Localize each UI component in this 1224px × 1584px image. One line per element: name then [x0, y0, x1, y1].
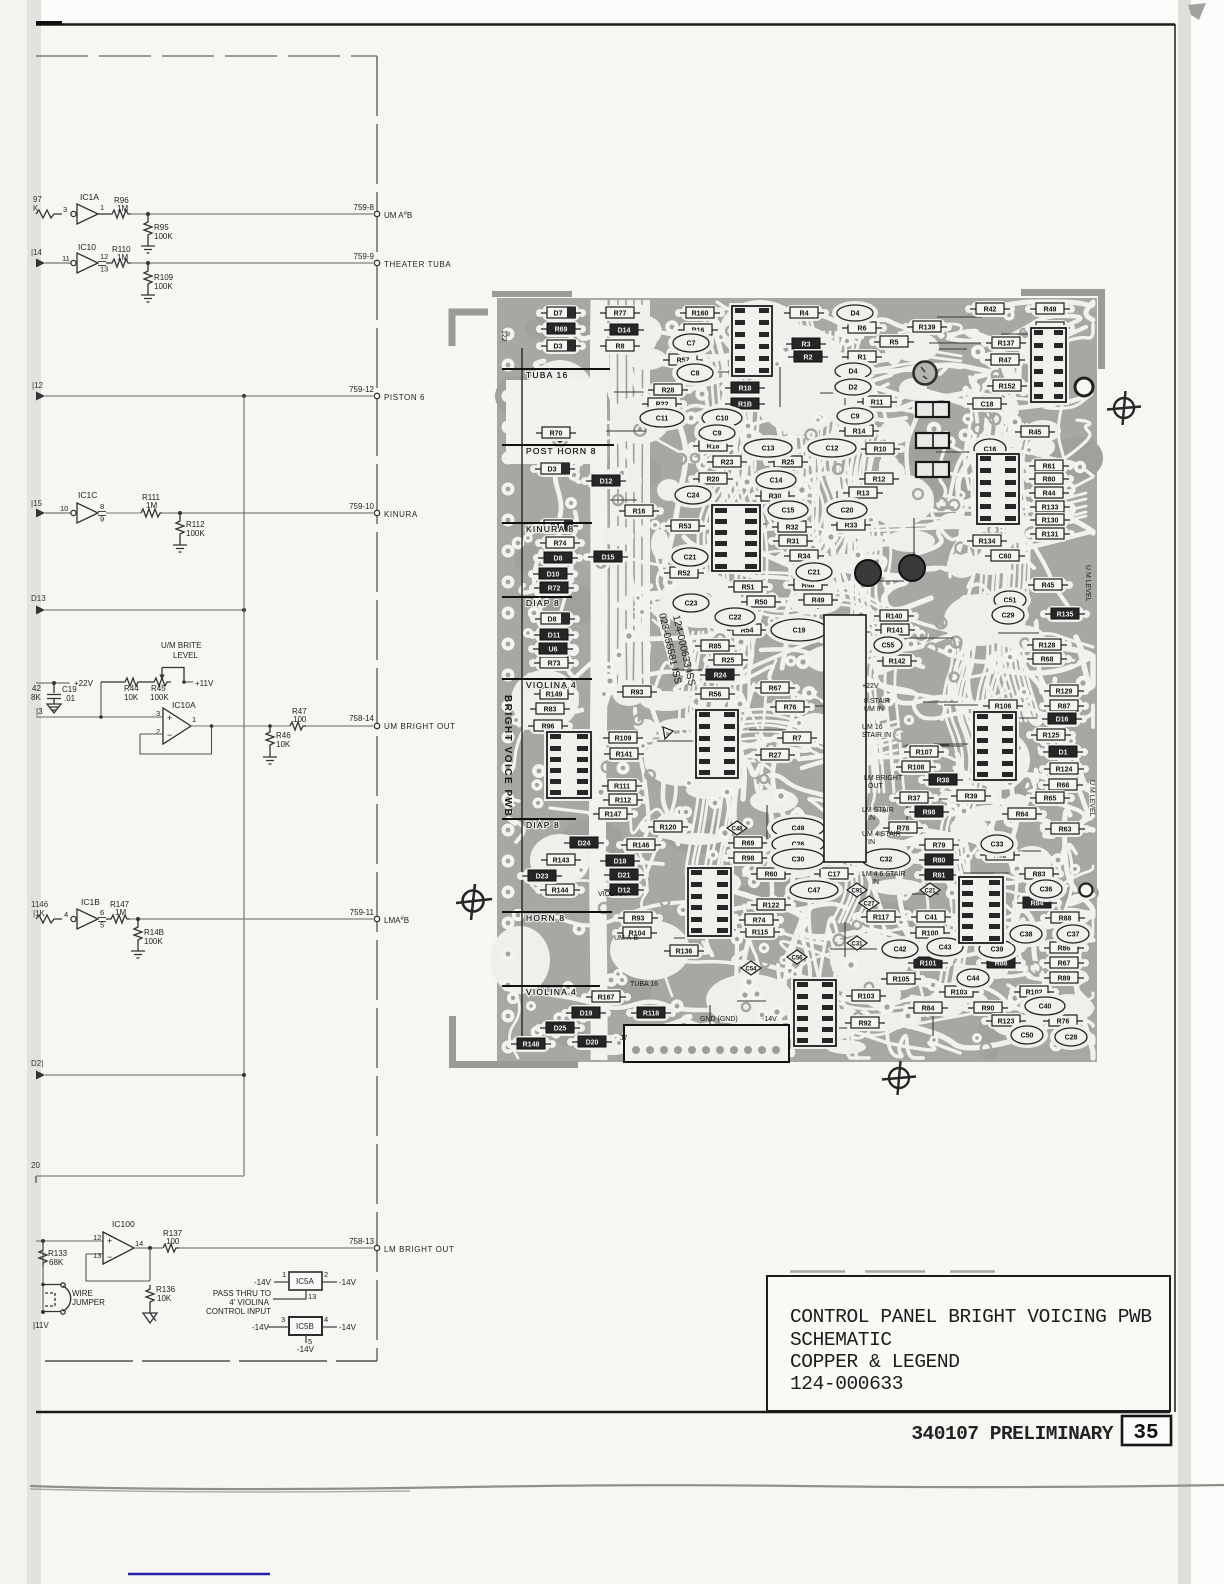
svg-text:R67: R67: [769, 686, 782, 693]
svg-text:R8: R8: [616, 344, 625, 351]
svg-text:124-000633: 124-000633: [790, 1373, 903, 1395]
dashed PWB top border: [36, 55, 377, 57]
svg-text:C54: C54: [745, 966, 757, 972]
svg-text:TUBA 16: TUBA 16: [526, 370, 568, 380]
svg-text:C28: C28: [1065, 1035, 1078, 1042]
svg-text:R61: R61: [1043, 464, 1056, 471]
svg-text:R13: R13: [857, 491, 870, 498]
svg-text:100: 100: [166, 1237, 180, 1246]
svg-text:R11: R11: [871, 400, 884, 407]
svg-text:14: 14: [135, 1239, 143, 1248]
svg-text:GND (GND): GND (GND): [700, 1016, 738, 1023]
wire +22V stub: [36, 682, 70, 684]
crop bracket bottom-left: [453, 1016, 579, 1065]
node junction: [242, 608, 246, 612]
node 20 row: [31, 1161, 244, 1183]
svg-text:C11: C11: [656, 416, 669, 423]
resistor R148 100K: [134, 919, 164, 946]
svg-text:C12: C12: [826, 446, 839, 453]
svg-text:C39: C39: [991, 947, 1004, 954]
node 12 input arrow: [32, 381, 45, 401]
svg-text:R33: R33: [845, 523, 858, 530]
node 15 input arrow: [31, 499, 45, 518]
blue pen mark: [128, 1573, 270, 1576]
svg-text:100: 100: [293, 715, 307, 724]
svg-text:R45: R45: [1042, 583, 1055, 590]
svg-text:C43: C43: [939, 945, 952, 952]
wire vertical bus to rows: [243, 396, 245, 1176]
svg-text:100K: 100K: [154, 282, 173, 291]
svg-text:R149: R149: [546, 692, 563, 699]
svg-text:IN: IN: [872, 879, 879, 886]
PCB traces: [505, 302, 1093, 1058]
registration mark right: [1107, 391, 1141, 425]
svg-text:VIOLINA: VIOLINA: [598, 891, 626, 898]
svg-text:R93: R93: [632, 916, 645, 923]
svg-text:C27: C27: [863, 901, 875, 907]
svg-text:|12: |12: [32, 381, 44, 390]
svg-text:R92: R92: [859, 1021, 872, 1028]
svg-text:BRIGHT VOICE PWB: BRIGHT VOICE PWB: [502, 695, 513, 817]
svg-text:R44: R44: [124, 684, 139, 693]
svg-text:6: 6: [100, 908, 104, 917]
svg-text:C48: C48: [731, 826, 743, 832]
svg-text:R44: R44: [1043, 491, 1056, 498]
svg-text:+22V: +22V: [862, 683, 879, 690]
svg-text:R25: R25: [782, 460, 795, 467]
svg-text:D16: D16: [1056, 717, 1069, 724]
resistor R110 1M: [106, 245, 131, 267]
svg-text:R148: R148: [523, 1042, 540, 1049]
svg-text:R5: R5: [890, 340, 899, 347]
svg-text:UM A-B: UM A-B: [614, 935, 638, 942]
PCB pads: [502, 309, 1091, 1054]
label U/M BRITE LEVEL: [161, 641, 201, 660]
svg-text:LM STAIR: LM STAIR: [862, 807, 894, 814]
svg-text:3: 3: [281, 1315, 285, 1324]
scan fold shadow line: [30, 1485, 1224, 1489]
svg-text:R56: R56: [709, 692, 722, 699]
wire to terminal: [306, 725, 373, 727]
node junction R112: [178, 511, 182, 515]
svg-text:C56: C56: [791, 955, 803, 961]
svg-text:C37: C37: [1067, 932, 1080, 939]
svg-text:R167: R167: [598, 995, 615, 1002]
ground: [141, 289, 155, 302]
svg-text:R111: R111: [614, 784, 630, 791]
svg-text:8K: 8K: [31, 693, 41, 702]
resistor R95 100K: [144, 214, 173, 241]
wire UM A#B run: [131, 213, 373, 215]
svg-text:HORN 8: HORN 8: [526, 913, 565, 923]
svg-text:WIRE: WIRE: [72, 1289, 93, 1298]
svg-text:KINURA: KINURA: [384, 510, 418, 519]
wire LMA#B run: [130, 918, 373, 920]
svg-text:R45: R45: [1029, 430, 1042, 437]
wire: connector bus vertical: [376, 56, 378, 1361]
potentiometer R45 100K: [141, 668, 184, 703]
svg-text:LEVEL: LEVEL: [173, 651, 198, 660]
svg-text:759-12: 759-12: [349, 385, 374, 394]
svg-text:D4: D4: [851, 311, 860, 318]
PCB artwork: copper and legend: [490, 291, 1103, 1062]
svg-text:R49: R49: [812, 598, 825, 605]
svg-text:R144: R144: [552, 888, 569, 895]
svg-text:C32: C32: [880, 857, 893, 864]
resistor R146 1K (partial at edge): [31, 900, 62, 923]
svg-text:D20: D20: [586, 1040, 599, 1047]
svg-text:COPPER & LEGEND: COPPER & LEGEND: [790, 1351, 960, 1373]
svg-text:R136: R136: [676, 949, 693, 956]
svg-text:R20: R20: [707, 477, 720, 484]
svg-text:UM A#B: UM A#B: [384, 211, 412, 220]
svg-text:J7: J7: [620, 1035, 628, 1042]
svg-text:OUT: OUT: [868, 783, 884, 790]
svg-text:CONTROL PANEL BRIGHT VOICING P: CONTROL PANEL BRIGHT VOICING PWB: [790, 1306, 1152, 1328]
right page-edge shading: [1178, 0, 1191, 1584]
wire inverting input: [140, 733, 163, 735]
svg-text:1: 1: [192, 715, 196, 724]
PCB stop-rail section labels: [502, 369, 614, 997]
svg-text:+22V: +22V: [74, 679, 94, 688]
wire D21 row: [45, 1074, 244, 1076]
node junction R109: [146, 261, 150, 265]
svg-text:C47: C47: [808, 888, 821, 895]
svg-text:35: 35: [1133, 1422, 1158, 1445]
svg-text:R142: R142: [889, 659, 906, 666]
terminal 759-9: [354, 252, 452, 269]
svg-text:R84: R84: [922, 1006, 935, 1013]
wire KINURA run: [162, 512, 373, 514]
svg-text:R136: R136: [156, 1285, 176, 1294]
svg-text:R146: R146: [633, 843, 650, 850]
svg-text:−: −: [167, 730, 172, 740]
svg-text:IN: IN: [868, 839, 875, 846]
svg-text:100K: 100K: [150, 693, 169, 702]
svg-text:C55: C55: [882, 643, 895, 650]
svg-text:|14: |14: [31, 248, 43, 257]
svg-text:R73: R73: [548, 661, 561, 668]
resistor R46 10K: [266, 726, 291, 750]
svg-text:R7: R7: [793, 736, 802, 743]
svg-text:C42: C42: [894, 947, 907, 954]
svg-text:100K: 100K: [154, 232, 173, 241]
svg-text:R133: R133: [48, 1249, 68, 1258]
svg-text:+: +: [107, 1236, 112, 1246]
svg-text:PISTON 6: PISTON 6: [384, 393, 425, 402]
svg-text:13: 13: [308, 1292, 316, 1301]
resistor R96 1M: [98, 196, 131, 218]
crop bracket top-left: [452, 312, 488, 346]
svg-text:VIOLINA 4: VIOLINA 4: [526, 987, 577, 997]
svg-text:R69: R69: [742, 841, 755, 848]
svg-text:DIAP 8: DIAP 8: [526, 820, 560, 830]
svg-text:R72: R72: [548, 586, 561, 593]
svg-text:D10: D10: [547, 572, 560, 579]
svg-text:R12: R12: [873, 477, 886, 484]
node junction R95: [146, 212, 150, 216]
resistor R109 100K: [144, 263, 174, 291]
svg-text:.01: .01: [64, 694, 76, 703]
svg-text:R107: R107: [916, 750, 933, 757]
svg-text:-14V: -14V: [254, 1278, 272, 1287]
svg-text:UM 16: UM 16: [862, 724, 883, 731]
svg-text:-14V: -14V: [297, 1345, 315, 1354]
svg-text:VIOLINA 4: VIOLINA 4: [526, 680, 577, 690]
svg-text:12: 12: [100, 252, 108, 261]
terminal 759-12: [349, 385, 425, 402]
svg-text:|1K: |1K: [33, 909, 46, 918]
svg-text:R3: R3: [802, 342, 811, 349]
svg-text:R64: R64: [1016, 812, 1029, 819]
svg-text:3: 3: [156, 709, 160, 718]
svg-text:R60: R60: [765, 872, 778, 879]
node junction piston: [242, 394, 246, 398]
PCB clearance blobs: [490, 300, 1094, 1055]
resistor R97 (partial at edge): [33, 195, 62, 218]
svg-text:R134: R134: [979, 539, 996, 546]
svg-text:R133: R133: [1042, 505, 1059, 512]
top border rule: [36, 23, 1175, 25]
svg-text:C60: C60: [999, 554, 1012, 561]
left page-edge shading: [27, 0, 41, 1584]
PCB copper ground plane: [497, 298, 1097, 1062]
svg-text:POST HORN 8: POST HORN 8: [526, 446, 597, 456]
svg-text:8: 8: [100, 502, 104, 511]
svg-text:C33: C33: [991, 842, 1004, 849]
svg-text:R45: R45: [151, 684, 166, 693]
terminal 759-11: [350, 908, 409, 925]
svg-text:R38: R38: [937, 778, 950, 785]
resistor R133 68K: [39, 1241, 68, 1267]
svg-text:C9: C9: [713, 431, 722, 438]
svg-text:R53: R53: [679, 524, 692, 531]
svg-text:C17: C17: [828, 872, 841, 879]
svg-text:759-11: 759-11: [350, 908, 375, 917]
svg-text:R87: R87: [1058, 704, 1071, 711]
svg-text:U6: U6: [549, 647, 558, 654]
svg-text:D8: D8: [548, 617, 557, 624]
svg-text:R37: R37: [908, 796, 921, 803]
wire output run: [191, 725, 290, 727]
svg-text:C18: C18: [981, 402, 994, 409]
svg-text:R108: R108: [908, 765, 925, 772]
svg-text:JUMPER: JUMPER: [72, 1298, 105, 1307]
svg-text:R2: R2: [804, 355, 813, 362]
svg-text:C21: C21: [808, 570, 821, 577]
svg-text:R50: R50: [755, 600, 768, 607]
svg-text:R14: R14: [853, 429, 866, 436]
svg-text:STAIR IN: STAIR IN: [862, 732, 891, 739]
svg-text:68K: 68K: [49, 1258, 64, 1267]
svg-text:D3: D3: [554, 344, 563, 351]
ground: [263, 750, 277, 764]
resistor R147 1M: [106, 900, 130, 923]
svg-text:C44: C44: [967, 976, 980, 983]
wire THEATER TUBA run: [131, 262, 373, 264]
PCB net annotations: [598, 683, 905, 1042]
svg-text:C91: C91: [851, 888, 863, 894]
resistor R111 1M: [141, 493, 162, 517]
svg-text:D18: D18: [614, 859, 627, 866]
svg-text:D19: D19: [580, 1011, 593, 1018]
svg-text:R125: R125: [1043, 733, 1060, 740]
svg-text:R32: R32: [786, 525, 799, 532]
svg-text:IC10A: IC10A: [172, 700, 196, 710]
svg-text:R77: R77: [614, 311, 627, 318]
resistor R137 100: [163, 1229, 183, 1252]
op-amp IC10A: [156, 700, 196, 744]
svg-text:R1B: R1B: [738, 402, 752, 409]
registration mark bottom: [882, 1061, 916, 1095]
svg-text:R90: R90: [982, 1006, 995, 1013]
page number box: [1122, 1416, 1171, 1445]
svg-text:R140: R140: [886, 614, 903, 621]
svg-text:42: 42: [32, 684, 41, 693]
svg-text:C21: C21: [924, 888, 936, 894]
svg-text:R109: R109: [615, 736, 632, 743]
svg-text:R112: R112: [186, 520, 205, 529]
svg-text:R103: R103: [858, 994, 875, 1001]
svg-text:1: 1: [282, 1270, 286, 1279]
svg-text:C8: C8: [691, 371, 700, 378]
wire LM BRIGHT OUT run: [179, 1247, 373, 1249]
svg-text:C24: C24: [687, 493, 700, 500]
svg-text:SCHEMATIC: SCHEMATIC: [790, 1329, 892, 1351]
footer rule: [36, 1411, 1170, 1414]
svg-text:R109: R109: [154, 273, 174, 282]
svg-text:759-9: 759-9: [354, 252, 375, 261]
svg-text:R16: R16: [633, 509, 646, 516]
dashed PWB bottom border: [45, 1360, 377, 1362]
ground: [131, 945, 145, 958]
svg-text:4' VIOLINA: 4' VIOLINA: [229, 1298, 269, 1307]
svg-text:R31: R31: [787, 539, 800, 546]
svg-text:R42: R42: [984, 307, 997, 314]
svg-text:R83: R83: [544, 707, 557, 714]
svg-text:C22: C22: [729, 615, 742, 622]
terminal 758-14: [349, 714, 456, 731]
svg-text:D7: D7: [554, 311, 563, 318]
svg-text:759-8: 759-8: [354, 203, 375, 212]
svg-text:R160: R160: [692, 311, 709, 318]
svg-text:C38: C38: [1020, 932, 1033, 939]
IC5A pass-thru: [206, 1270, 357, 1316]
svg-text:C14: C14: [770, 478, 783, 485]
svg-text:R131: R131: [1042, 532, 1059, 539]
svg-text:D13: D13: [31, 594, 46, 603]
svg-text:20: 20: [31, 1161, 40, 1170]
svg-text:R51: R51: [742, 585, 755, 592]
svg-text:D14: D14: [618, 328, 631, 335]
svg-text:R80: R80: [1043, 477, 1056, 484]
op-amp IC1C: [45, 490, 106, 524]
PCB vertical legends: [500, 330, 1095, 817]
svg-text:-14V: -14V: [339, 1323, 357, 1332]
page corner fold mark: [1188, 3, 1206, 20]
svg-text:758-13: 758-13: [349, 1237, 374, 1246]
svg-text:THEATER TUBA: THEATER TUBA: [384, 260, 451, 269]
svg-text:D25: D25: [554, 1026, 567, 1033]
wire input row: [36, 716, 163, 718]
svg-text:LM BRIGHT OUT: LM BRIGHT OUT: [384, 1245, 454, 1254]
svg-text:3: 3: [63, 205, 67, 214]
svg-text:CONTROL INPUT: CONTROL INPUT: [206, 1307, 271, 1316]
svg-text:-14V: -14V: [252, 1323, 270, 1332]
svg-text:R137: R137: [998, 341, 1015, 348]
wire feedback loop: [140, 726, 212, 754]
svg-text:C36: C36: [1040, 887, 1053, 894]
svg-text:R93: R93: [631, 690, 644, 697]
svg-text:D2: D2: [849, 385, 858, 392]
wire D13 row: [45, 609, 244, 611]
svg-text:R128: R128: [1039, 643, 1056, 650]
resistor R47 100: [290, 707, 307, 730]
chassis ground: [143, 1307, 157, 1323]
right border rule: [1174, 24, 1176, 1412]
svg-text:D2|: D2|: [31, 1059, 43, 1068]
wire to R111: [106, 512, 141, 514]
svg-text:|15: |15: [31, 499, 43, 508]
svg-text:R123: R123: [998, 1019, 1015, 1026]
svg-text:R118: R118: [643, 1011, 659, 1018]
svg-text:R27: R27: [769, 753, 782, 760]
PCB stop rail: [506, 380, 602, 464]
svg-text:R130: R130: [1042, 518, 1059, 525]
svg-text:C19: C19: [793, 628, 806, 635]
svg-text:U M LEVEL: U M LEVEL: [1088, 780, 1095, 817]
svg-text:C23: C23: [685, 601, 698, 608]
svg-text:4: 4: [64, 910, 68, 919]
registration mark left: [456, 884, 492, 920]
svg-text:−: −: [107, 1252, 112, 1262]
wire inverting input + feedback: [86, 1254, 150, 1281]
svg-text:R115: R115: [752, 930, 768, 937]
svg-text:IN: IN: [868, 815, 875, 822]
svg-text:12: 12: [93, 1233, 101, 1242]
svg-text:R147: R147: [605, 812, 622, 819]
svg-text:100K: 100K: [186, 529, 205, 538]
terminal 759-8: [354, 203, 413, 220]
ground: [47, 704, 61, 713]
svg-text:R24: R24: [714, 673, 727, 680]
svg-text:10K: 10K: [124, 693, 139, 702]
svg-text:D1: D1: [1059, 750, 1068, 757]
svg-text:LM 4.6 STAIR: LM 4.6 STAIR: [862, 871, 905, 878]
svg-text:R66: R66: [1057, 783, 1070, 790]
title block box: [767, 1272, 1170, 1412]
wire jumper: [33, 1241, 105, 1330]
svg-text:R47: R47: [999, 358, 1012, 365]
schematic section: control panel bright voicing: [31, 56, 456, 1361]
svg-text:R65: R65: [1044, 796, 1057, 803]
op-amp IC100: [36, 1219, 143, 1264]
svg-text:UM BRIGHT OUT: UM BRIGHT OUT: [384, 722, 456, 731]
svg-text:R129: R129: [1056, 689, 1073, 696]
PCB lead lines: [606, 317, 1056, 1037]
svg-text:R52: R52: [678, 571, 691, 578]
svg-text:R68: R68: [1041, 657, 1054, 664]
svg-text:R95: R95: [154, 223, 169, 232]
svg-text:R49: R49: [1044, 307, 1057, 314]
svg-text:R39: R39: [965, 794, 978, 801]
svg-text:R105: R105: [893, 977, 910, 984]
wire PISTON 6 run: [45, 395, 373, 397]
terminal 758-13: [349, 1237, 454, 1254]
svg-text:R124: R124: [1056, 767, 1073, 774]
svg-text:IC1C: IC1C: [78, 490, 97, 500]
svg-text:D8: D8: [554, 556, 563, 563]
